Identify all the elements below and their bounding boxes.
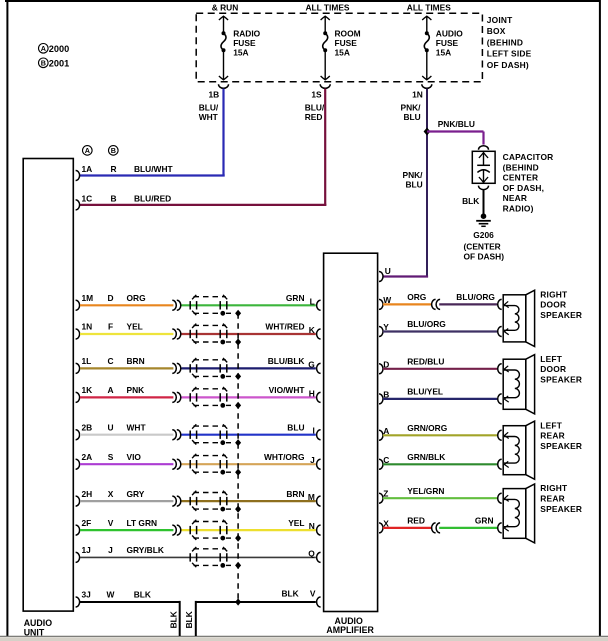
wire BLU/YEL bbox=[383, 398, 497, 400]
svg-text:3J: 3J bbox=[82, 590, 92, 600]
svg-text:L: L bbox=[310, 296, 315, 306]
svg-text:GRN: GRN bbox=[475, 516, 494, 526]
pin 1A wire BLU/WHT bbox=[76, 171, 80, 181]
svg-text:R: R bbox=[110, 164, 116, 174]
svg-text:& RUN: & RUN bbox=[212, 3, 239, 13]
inline connector bbox=[172, 525, 176, 535]
svg-text:WHT: WHT bbox=[127, 422, 147, 432]
connector pin 1B bbox=[219, 84, 229, 88]
amplifier pin W bbox=[379, 299, 383, 309]
junction to capacitor bbox=[424, 128, 431, 136]
svg-text:ALL TIMES: ALL TIMES bbox=[407, 3, 451, 13]
svg-text:DOOR: DOOR bbox=[540, 300, 566, 310]
svg-text:GRY/BLK: GRY/BLK bbox=[127, 545, 164, 555]
svg-text:OF DASH): OF DASH) bbox=[487, 60, 529, 70]
svg-text:FUSE: FUSE bbox=[335, 38, 358, 48]
svg-text:PNK/: PNK/ bbox=[403, 170, 424, 180]
wire GRY/BLK 1J to amplifier Q bbox=[80, 556, 316, 558]
svg-text:RIGHT: RIGHT bbox=[540, 483, 568, 493]
svg-text:2000: 2000 bbox=[49, 44, 69, 54]
inline connector bbox=[436, 299, 440, 309]
svg-text:LEFT: LEFT bbox=[540, 420, 562, 430]
svg-text:H: H bbox=[309, 388, 315, 398]
svg-text:BLU/ORG: BLU/ORG bbox=[456, 292, 495, 302]
svg-text:NEAR: NEAR bbox=[503, 193, 528, 203]
svg-text:AMPLIFIER: AMPLIFIER bbox=[326, 625, 374, 635]
svg-text:JOINT: JOINT bbox=[487, 15, 513, 25]
wire PNK from 1K bbox=[80, 396, 173, 398]
svg-text:REAR: REAR bbox=[540, 494, 565, 504]
svg-text:1M: 1M bbox=[82, 293, 94, 303]
svg-text:A: A bbox=[107, 385, 113, 395]
svg-text:CAPACITOR: CAPACITOR bbox=[503, 152, 554, 162]
wire GRY from 2H bbox=[80, 500, 173, 502]
legend year A bbox=[39, 44, 49, 54]
svg-text:REAR: REAR bbox=[540, 431, 565, 441]
svg-text:CENTER: CENTER bbox=[503, 173, 539, 183]
left door speaker bbox=[503, 359, 526, 409]
audio unit pin 1N bbox=[76, 329, 80, 339]
svg-text:15A: 15A bbox=[436, 48, 451, 58]
svg-text:ORG: ORG bbox=[127, 293, 146, 303]
svg-text:B: B bbox=[41, 58, 46, 67]
wire BLU/WHT fuse 1B to audio unit 1A bbox=[222, 89, 224, 176]
audio unit pin 1J bbox=[76, 552, 80, 562]
shielding bbox=[194, 492, 226, 494]
amplifier pin Z bbox=[379, 493, 383, 503]
svg-text:2001: 2001 bbox=[49, 59, 69, 69]
svg-text:1L: 1L bbox=[82, 356, 92, 366]
audio unit pin 1L bbox=[76, 363, 80, 373]
svg-text:PNK: PNK bbox=[127, 385, 145, 395]
svg-text:UNIT: UNIT bbox=[24, 628, 45, 638]
svg-text:I: I bbox=[312, 426, 314, 436]
svg-text:F: F bbox=[108, 322, 113, 332]
audio unit pin 3J bbox=[76, 597, 80, 607]
shielding bbox=[194, 296, 226, 298]
svg-text:B: B bbox=[111, 146, 116, 155]
svg-text:D: D bbox=[107, 293, 113, 303]
wire GRN to amplifier L bbox=[182, 304, 316, 306]
svg-text:BLK: BLK bbox=[462, 196, 479, 206]
wire VIO/WHT to amplifier H bbox=[182, 396, 316, 398]
svg-text:15A: 15A bbox=[335, 48, 350, 58]
svg-text:BLU: BLU bbox=[406, 180, 423, 190]
svg-text:SPEAKER: SPEAKER bbox=[540, 504, 582, 514]
wire WHT from 2B bbox=[80, 434, 173, 436]
shielding bbox=[194, 359, 226, 361]
svg-text:BLK: BLK bbox=[282, 588, 299, 598]
svg-text:YEL: YEL bbox=[127, 322, 143, 332]
svg-text:PNK/BLU: PNK/BLU bbox=[438, 119, 475, 129]
svg-text:A: A bbox=[85, 146, 90, 155]
svg-text:J: J bbox=[310, 455, 315, 465]
svg-text:G: G bbox=[308, 359, 315, 369]
wire RED bbox=[383, 527, 432, 529]
inline connector bbox=[172, 459, 176, 469]
wire BLU/ORG bbox=[439, 303, 497, 305]
audio unit pin 2A bbox=[76, 459, 80, 469]
svg-text:BRN: BRN bbox=[286, 489, 304, 499]
page border bbox=[5, 0, 601, 2]
audio unit pin 1M bbox=[76, 300, 80, 310]
svg-text:A: A bbox=[41, 44, 46, 53]
shielding bbox=[194, 455, 226, 457]
svg-text:BOX: BOX bbox=[487, 26, 506, 36]
svg-text:1B: 1B bbox=[208, 90, 219, 100]
svg-text:K: K bbox=[309, 325, 315, 335]
svg-text:V: V bbox=[310, 588, 316, 598]
svg-text:1J: 1J bbox=[82, 545, 92, 555]
audio unit pin 2B bbox=[76, 430, 80, 440]
wire BLU/RED fuse 1S to audio unit 1C bbox=[324, 89, 326, 205]
shielding bbox=[194, 521, 226, 523]
column header year B bbox=[109, 146, 119, 156]
svg-text:WHT/ORG: WHT/ORG bbox=[264, 452, 304, 462]
wire BLK capacitor to ground bbox=[483, 190, 485, 215]
wire ORG from 1M bbox=[80, 304, 173, 306]
amplifier pin A bbox=[379, 430, 383, 440]
svg-text:M: M bbox=[308, 492, 315, 502]
fuse RADIO FUSE 15A bbox=[223, 16, 225, 32]
svg-text:BLK: BLK bbox=[184, 611, 194, 628]
inline connector bbox=[172, 430, 176, 440]
svg-text:J: J bbox=[108, 545, 113, 555]
wire YEL/GRN bbox=[383, 497, 497, 499]
svg-text:(BEHIND: (BEHIND bbox=[503, 162, 539, 172]
svg-text:2F: 2F bbox=[82, 518, 92, 528]
svg-text:15A: 15A bbox=[233, 48, 248, 58]
svg-text:U: U bbox=[107, 422, 113, 432]
wire PNK/BLU fuse 1N down to amplifier U bbox=[426, 89, 428, 132]
wire GRN/ORG bbox=[383, 434, 497, 436]
wire BLU/BLK to amplifier G bbox=[182, 367, 316, 369]
svg-text:SPEAKER: SPEAKER bbox=[540, 310, 582, 320]
wire BRN to amplifier M bbox=[182, 500, 316, 502]
svg-text:RED: RED bbox=[407, 516, 425, 526]
inline connector bbox=[172, 392, 176, 402]
connector pin 1N bbox=[422, 84, 432, 88]
svg-text:W: W bbox=[107, 590, 115, 600]
svg-text:BLU/ORG: BLU/ORG bbox=[407, 319, 446, 329]
svg-text:BLU/RED: BLU/RED bbox=[134, 193, 171, 203]
svg-text:2H: 2H bbox=[82, 489, 93, 499]
svg-text:RADIO): RADIO) bbox=[503, 203, 534, 213]
inline connector bbox=[172, 496, 176, 506]
svg-text:1A: 1A bbox=[82, 164, 93, 174]
svg-text:BLU: BLU bbox=[404, 112, 421, 122]
wire BLK 3J down to bottom bbox=[80, 601, 180, 603]
svg-text:GRN/BLK: GRN/BLK bbox=[407, 452, 445, 462]
svg-text:YEL: YEL bbox=[288, 518, 304, 528]
inline connector bbox=[172, 363, 176, 373]
svg-text:LT GRN: LT GRN bbox=[127, 518, 158, 528]
svg-text:BLU/BLK: BLU/BLK bbox=[268, 356, 305, 366]
wire ORG bbox=[383, 303, 432, 305]
audio unit box bbox=[23, 159, 73, 612]
svg-text:BLU/YEL: BLU/YEL bbox=[407, 387, 443, 397]
wire BLK up from bottom to amplifier V bbox=[195, 601, 197, 636]
svg-text:1C: 1C bbox=[82, 193, 93, 203]
junction shield drain to BLK bbox=[235, 598, 241, 605]
joint box (dashed) bbox=[196, 13, 482, 82]
svg-text:GRN/ORG: GRN/ORG bbox=[407, 423, 447, 433]
svg-text:Q: Q bbox=[308, 548, 315, 558]
fuse AUDIO FUSE 15A bbox=[426, 16, 428, 32]
audio unit pin 2F bbox=[76, 525, 80, 535]
svg-text:SPEAKER: SPEAKER bbox=[540, 441, 582, 451]
wire PNK/BLU junction to capacitor bbox=[427, 130, 484, 132]
amplifier pin X bbox=[379, 523, 383, 533]
svg-text:(BEHIND: (BEHIND bbox=[487, 37, 523, 47]
svg-text:SPEAKER: SPEAKER bbox=[540, 374, 582, 384]
svg-text:BLU/: BLU/ bbox=[305, 102, 325, 112]
amplifier box bbox=[324, 253, 378, 611]
audio unit pin 2H bbox=[76, 496, 80, 506]
svg-text:FUSE: FUSE bbox=[436, 38, 459, 48]
column header year A bbox=[83, 146, 93, 156]
connector pin 1S bbox=[320, 84, 330, 88]
svg-text:(CENTER: (CENTER bbox=[464, 241, 501, 251]
wire VIO from 2A bbox=[80, 463, 173, 465]
svg-text:G206: G206 bbox=[473, 230, 494, 240]
right door speaker bbox=[503, 295, 526, 342]
svg-text:WHT: WHT bbox=[199, 112, 219, 122]
shield drain dashed line bbox=[237, 313, 239, 600]
wire WHT/RED to amplifier K bbox=[182, 333, 316, 335]
svg-text:1N: 1N bbox=[412, 90, 423, 100]
amplifier pin Y bbox=[379, 327, 383, 337]
svg-text:RIGHT: RIGHT bbox=[540, 289, 568, 299]
svg-text:BRN: BRN bbox=[127, 356, 145, 366]
fuse ROOM FUSE 15A bbox=[324, 16, 326, 32]
wire YEL to amplifier N bbox=[182, 529, 316, 531]
left rear speaker bbox=[503, 426, 526, 475]
svg-text:S: S bbox=[108, 452, 114, 462]
svg-text:VIO/WHT: VIO/WHT bbox=[269, 385, 306, 395]
wire RED/BLU bbox=[383, 368, 497, 370]
svg-text:YEL/GRN: YEL/GRN bbox=[407, 486, 444, 496]
wire BRN from 1L bbox=[80, 367, 173, 369]
capacitor (noise suppressor) bbox=[479, 146, 489, 150]
svg-text:LEFT SIDE: LEFT SIDE bbox=[487, 49, 532, 59]
svg-text:BLU/: BLU/ bbox=[199, 102, 219, 112]
wire GRN bbox=[439, 527, 497, 529]
svg-text:N: N bbox=[309, 521, 315, 531]
wire GRN/BLK bbox=[383, 463, 497, 465]
svg-text:AUDIO: AUDIO bbox=[24, 618, 53, 628]
svg-text:AUDIO: AUDIO bbox=[436, 28, 463, 38]
svg-text:VIO: VIO bbox=[127, 452, 142, 462]
svg-text:GRY: GRY bbox=[127, 489, 145, 499]
svg-text:LEFT: LEFT bbox=[540, 354, 562, 364]
svg-text:1N: 1N bbox=[82, 322, 93, 332]
wire WHT/ORG to amplifier J bbox=[182, 463, 316, 465]
svg-text:C: C bbox=[107, 356, 113, 366]
svg-text:FUSE: FUSE bbox=[233, 38, 256, 48]
shielding bbox=[194, 425, 226, 427]
amplifier pin B bbox=[379, 394, 383, 404]
svg-text:BLU: BLU bbox=[287, 422, 304, 432]
svg-text:BLU/WHT: BLU/WHT bbox=[134, 164, 173, 174]
svg-text:ORG: ORG bbox=[407, 292, 426, 302]
right rear speaker bbox=[503, 489, 526, 539]
svg-text:PNK/: PNK/ bbox=[401, 102, 422, 112]
shielding bbox=[194, 388, 226, 390]
svg-text:1K: 1K bbox=[82, 385, 93, 395]
svg-text:X: X bbox=[108, 489, 114, 499]
svg-text:BLK: BLK bbox=[134, 590, 151, 600]
svg-text:ALL TIMES: ALL TIMES bbox=[305, 3, 349, 13]
audio unit pin 1K bbox=[76, 392, 80, 402]
wire BLU to amplifier I bbox=[182, 434, 316, 436]
svg-text:RED: RED bbox=[305, 112, 323, 122]
svg-text:RADIO: RADIO bbox=[233, 28, 260, 38]
legend year B bbox=[39, 58, 49, 68]
inline connector bbox=[172, 300, 176, 310]
inline connector bbox=[172, 329, 176, 339]
svg-text:RED/BLU: RED/BLU bbox=[407, 357, 444, 367]
svg-text:ROOM: ROOM bbox=[335, 28, 361, 38]
svg-text:U: U bbox=[385, 266, 391, 276]
amplifier pin C bbox=[379, 459, 383, 469]
svg-text:OF DASH,: OF DASH, bbox=[503, 183, 545, 193]
shielding bbox=[194, 548, 226, 550]
svg-text:B: B bbox=[110, 193, 116, 203]
wire LT GRN from 2F bbox=[80, 529, 173, 531]
amplifier pin U bbox=[379, 272, 383, 282]
inline connector bbox=[436, 523, 440, 533]
wire BLU/ORG bbox=[383, 330, 497, 332]
svg-text:V: V bbox=[108, 518, 114, 528]
svg-text:1S: 1S bbox=[311, 90, 322, 100]
shielding bbox=[194, 324, 226, 326]
ground G206 bbox=[481, 213, 487, 219]
svg-text:2B: 2B bbox=[82, 422, 93, 432]
svg-text:OF DASH): OF DASH) bbox=[464, 251, 505, 261]
svg-text:DOOR: DOOR bbox=[540, 364, 566, 374]
svg-text:WHT/RED: WHT/RED bbox=[265, 322, 304, 332]
amplifier pin D bbox=[379, 364, 383, 374]
wire YEL from 1N bbox=[80, 333, 173, 335]
svg-text:BLK: BLK bbox=[169, 611, 179, 628]
svg-text:2A: 2A bbox=[82, 452, 93, 462]
svg-text:GRN: GRN bbox=[286, 293, 305, 303]
pin 1C wire BLU/RED bbox=[76, 200, 80, 210]
